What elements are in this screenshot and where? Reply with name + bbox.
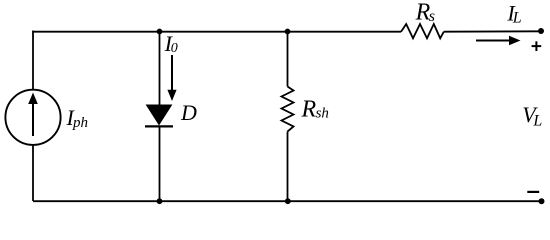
resistor Rs (series, horizontal zigzag)	[401, 24, 444, 38]
label VL	[522, 102, 542, 130]
node: negative output terminal	[539, 198, 545, 204]
label Rs	[415, 0, 435, 26]
label plus sign	[532, 41, 542, 51]
wire bottom: left corner to diode node	[33, 200, 160, 202]
svg-text:ph: ph	[72, 115, 88, 131]
wire diode branch upper	[159, 31, 161, 106]
wire Rsh branch lower	[287, 132, 289, 202]
svg-text:s: s	[429, 8, 435, 25]
wire Rsh branch upper	[287, 31, 289, 86]
node: top junction at diode branch	[157, 29, 163, 35]
node: positive output terminal	[538, 28, 544, 34]
svg-text:R: R	[301, 96, 317, 122]
svg-text:sh: sh	[316, 105, 329, 121]
label Rsh	[301, 96, 329, 122]
label minus sign	[527, 191, 539, 193]
wire left: current source down to bottom corner	[32, 145, 34, 201]
arrow I0 (diode current, pointing down)	[167, 55, 176, 101]
node: bottom junction at diode branch	[157, 198, 163, 204]
svg-text:L: L	[512, 10, 522, 27]
wire top: Rsh node to Rs	[288, 31, 402, 33]
label I0	[164, 31, 178, 56]
wire top: left corner to diode node	[33, 31, 160, 33]
arrow IL (load current, pointing right)	[476, 36, 521, 46]
wire left: top corner down to current source	[32, 31, 34, 90]
wire top: diode node to Rsh node	[160, 31, 288, 33]
label IL	[506, 0, 521, 26]
wire bottom: diode node to Rsh node	[160, 200, 288, 202]
wire top: Rs to positive terminal	[444, 30, 541, 32]
label Iph	[66, 105, 89, 131]
svg-text:0: 0	[171, 41, 178, 56]
node: top junction at Rsh branch	[285, 29, 291, 35]
diode D (triangle and cathode bar)	[145, 105, 173, 126]
wire bottom: Rsh node to negative terminal	[288, 200, 542, 202]
svg-text:L: L	[532, 113, 542, 130]
svg-text:D: D	[180, 100, 197, 125]
arrow inside current source (pointing up)	[28, 93, 38, 137]
current source Iph (circle)	[5, 90, 60, 145]
wire diode branch lower	[159, 126, 161, 201]
node: bottom junction at Rsh branch	[285, 198, 291, 204]
resistor Rsh (shunt, vertical zigzag)	[282, 87, 294, 132]
